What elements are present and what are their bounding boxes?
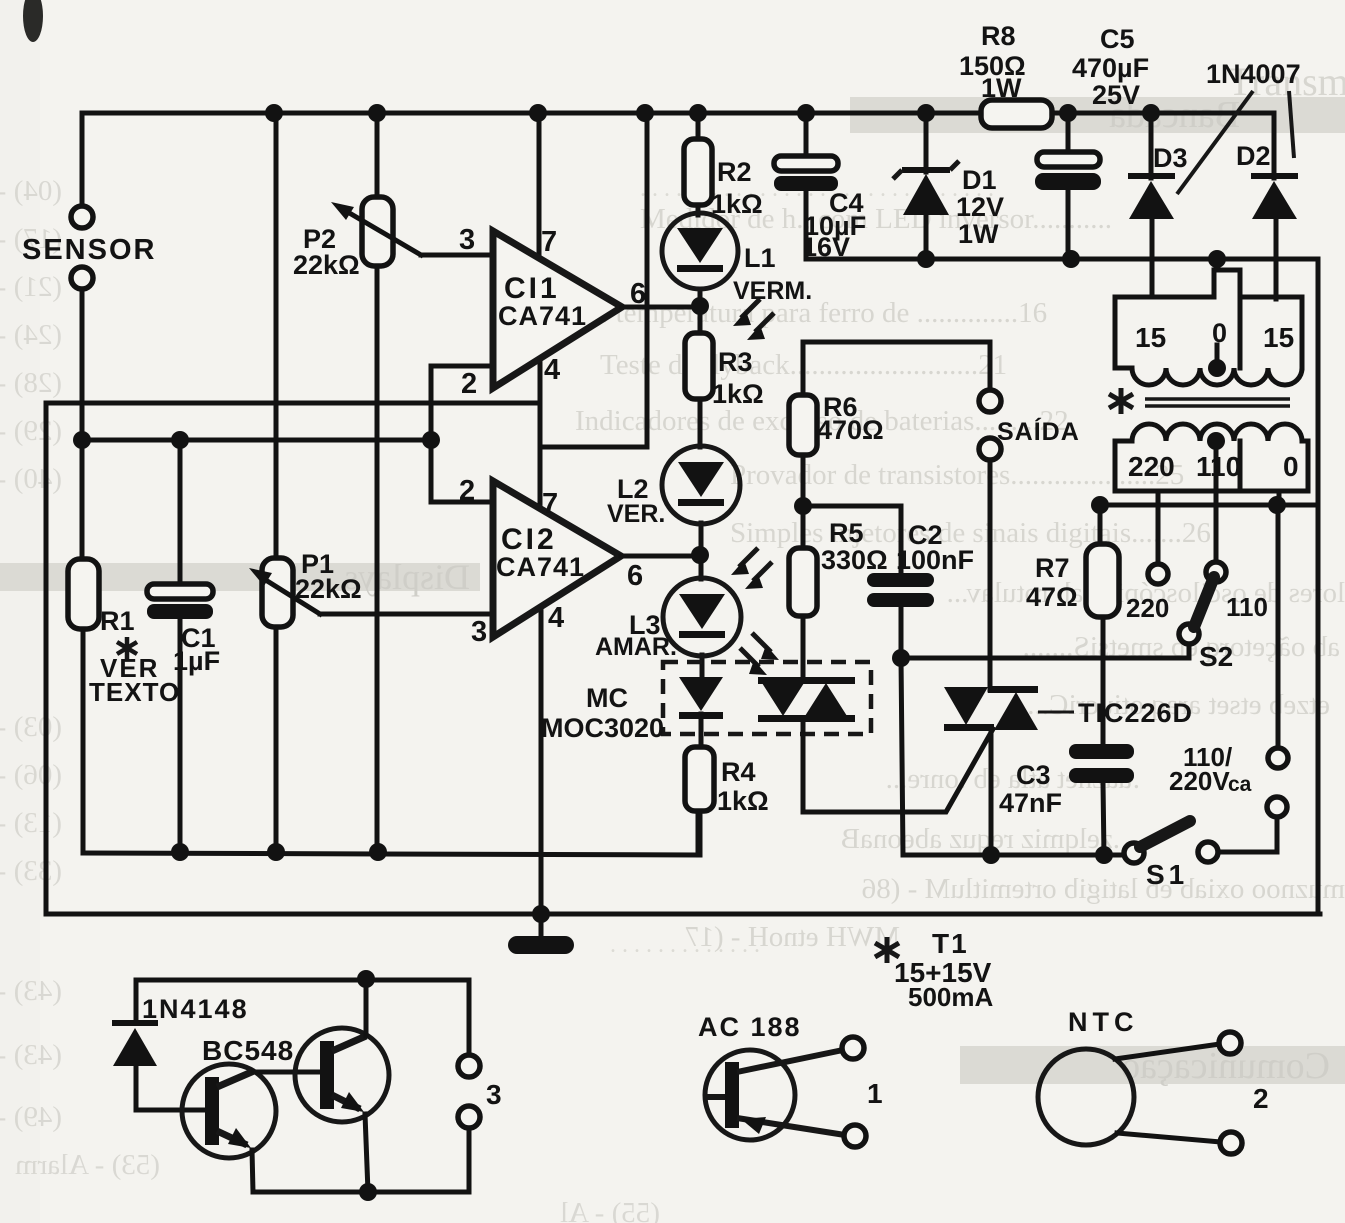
- wire: left rail horizontal y403: [46, 401, 540, 406]
- svg-text:1W: 1W: [958, 219, 999, 249]
- wire: CI2 pin3 lead: [320, 612, 493, 617]
- svg-text:(28) - E: (28) - E: [0, 367, 62, 399]
- wire: Q1 collector to Q2 base: [253, 1070, 320, 1075]
- svg-text:3: 3: [471, 616, 487, 648]
- ground symbol: [539, 914, 544, 940]
- terminal NTC bottom: [1220, 1132, 1242, 1154]
- wire: secondary 0 tap: [1215, 259, 1220, 270]
- arrowhead P2 wiper: [331, 202, 354, 220]
- transistor Q2 BC548: [295, 1028, 389, 1122]
- wire: left border rail: [44, 403, 49, 914]
- terminal 220: [1148, 564, 1168, 584]
- svg-text:R7: R7: [1035, 553, 1070, 583]
- terminal 3 bottom: [458, 1106, 480, 1128]
- wire: R5/opto column: [801, 342, 806, 397]
- wire: C2 node down to mains row: [901, 658, 1124, 855]
- wire: R7 to C3: [1101, 617, 1106, 747]
- svg-text:L1: L1: [744, 243, 776, 273]
- wire: C2 bottom lead: [899, 607, 904, 658]
- wire: P2 column from +V: [375, 113, 380, 197]
- wire: row A y505: [1100, 503, 1318, 508]
- scan smudge top-left: [23, 0, 43, 42]
- wire: primary 220 tap: [1156, 491, 1161, 563]
- svg-text:(21) - A: (21) - A: [0, 271, 62, 303]
- transformer T1 primary box: [1115, 441, 1308, 491]
- svg-text:1kΩ: 1kΩ: [712, 379, 764, 409]
- svg-text:CA741: CA741: [498, 301, 587, 331]
- svg-text:R5: R5: [829, 518, 864, 548]
- svg-text:(04) - T: (04) - T: [0, 175, 62, 207]
- wire: CI1 pin7 to +V: [537, 113, 542, 258]
- potentiometer P1 22k: [262, 558, 293, 627]
- wire: CI1 pin4 / CI2 pin7 column: [538, 358, 543, 508]
- svg-text:(53) - Alarm: (53) - Alarm: [15, 1149, 160, 1181]
- wire: sensor/R1 column: [80, 289, 85, 559]
- svg-text:D1: D1: [962, 165, 997, 195]
- svg-text:(13) - Ala: (13) - Ala: [0, 807, 62, 839]
- wire: 0 tap down to Vca terminal: [1276, 505, 1281, 748]
- wire: CI2 pin4 column to ground: [539, 607, 544, 914]
- zener D1 12V 1W: [924, 113, 929, 172]
- capacitor C3 47nF: [1069, 744, 1134, 759]
- sub-circuit top wire: [136, 978, 469, 983]
- svg-text:(24) - T: (24) - T: [0, 319, 62, 351]
- capacitor C2 100nF: [867, 573, 934, 587]
- optocoupler MC MOC3020 dashed box: [663, 662, 871, 734]
- svg-text:220: 220: [1128, 451, 1175, 482]
- svg-text:VERM.: VERM.: [733, 277, 812, 305]
- resistor R6 470: [789, 395, 817, 455]
- svg-text:AC 188: AC 188: [698, 1012, 802, 1042]
- wire: CI2 pin6 output: [621, 554, 701, 559]
- wire: Q2 emitter down: [365, 1114, 368, 1192]
- svg-text:MC: MC: [586, 683, 628, 713]
- svg-text:100nF: 100nF: [896, 545, 974, 575]
- svg-text:(49) - Ala: (49) - Ala: [0, 1101, 62, 1133]
- wire: C2 top lead: [899, 506, 904, 576]
- wire: S1 right to Vca: [1219, 817, 1277, 852]
- svg-text:1µF: 1µF: [173, 646, 220, 676]
- terminal NTC top: [1219, 1032, 1241, 1054]
- bleed-through band mid left: [0, 563, 480, 591]
- wire: P1 top column from +V: [274, 113, 279, 558]
- light arrows L2: [739, 548, 772, 581]
- svg-text:(40) - T: (40) - T: [0, 463, 62, 495]
- terminal SAIDA top: [979, 390, 1001, 412]
- svg-text:110: 110: [1226, 592, 1268, 622]
- arrowhead P1 wiper: [249, 568, 272, 586]
- svg-text:1kΩ: 1kΩ: [711, 189, 763, 219]
- bleed-through band top right: [850, 97, 1345, 133]
- wire: C1 bottom lead: [178, 618, 183, 852]
- transformer T1 secondary box: [1115, 270, 1302, 368]
- secondary winding bumps: [1132, 368, 1302, 385]
- capacitor C4 10uF 16V: [774, 156, 838, 171]
- wire: primary 110 tap: [1214, 441, 1219, 561]
- svg-text:470Ω: 470Ω: [817, 415, 884, 445]
- resistor R3 1k: [685, 333, 713, 399]
- svg-text:1N4007: 1N4007: [1206, 59, 1301, 89]
- wire: top +V rail: [82, 111, 1274, 116]
- wire: P2 wiper slant: [346, 211, 421, 255]
- svg-text:1N4148: 1N4148: [142, 994, 249, 1024]
- svg-text:R2: R2: [717, 157, 752, 187]
- bleed mirrored left numbers: [0, 175, 660, 1223]
- wire: ground row y852: [83, 812, 698, 855]
- wire: inverting input row y440: [82, 438, 431, 443]
- svg-text:7: 7: [541, 226, 557, 258]
- terminal Vca lower: [1267, 797, 1287, 817]
- terminal AC188 bottom: [844, 1125, 866, 1147]
- wire: gate row to triac: [803, 729, 993, 812]
- switch S1: [1124, 843, 1144, 863]
- svg-text:S2: S2: [1199, 641, 1233, 672]
- svg-text:muznoo oxiab eb latigib ortemi: muznoo oxiab eb latigib ortemitluM - (86: [862, 873, 1345, 905]
- svg-text:220: 220: [1126, 593, 1169, 623]
- diode D2: [1272, 113, 1277, 178]
- wire: CI1 pin3 lead: [421, 253, 493, 258]
- wire: R6 top row to SAIDA: [803, 342, 990, 397]
- LED L3 AMAR: [663, 578, 741, 656]
- svg-text:110: 110: [1196, 451, 1241, 482]
- wire: C4 bottom lead: [804, 190, 809, 259]
- op-amp CI1 CA741: [493, 231, 622, 388]
- terminal SENSOR top: [71, 206, 93, 228]
- bleed-through band bottom right: [960, 1046, 1345, 1084]
- svg-text:(03) - Re: (03) - Re: [0, 711, 62, 743]
- light arrows L1: [741, 299, 774, 332]
- svg-text:BC548: BC548: [202, 1035, 294, 1066]
- svg-text:AMAR.: AMAR.: [595, 633, 677, 661]
- svg-text:500mA: 500mA: [908, 982, 993, 1012]
- svg-text:(43) - Blo: (43) - Blo: [0, 975, 62, 1007]
- svg-text:SENSOR: SENSOR: [22, 234, 156, 266]
- wire: C4 top lead: [804, 113, 809, 157]
- terminal SENSOR bottom: [71, 267, 93, 289]
- resistor R2 1k: [684, 139, 712, 205]
- resistor R4 1k: [685, 747, 714, 811]
- svg-text:1kΩ: 1kΩ: [717, 786, 769, 816]
- svg-text:R1: R1: [100, 606, 135, 636]
- resistor R8 150 1W: [981, 100, 1052, 128]
- wire: R5 to C2 row: [803, 504, 901, 509]
- terminal AC188 top: [842, 1037, 864, 1059]
- svg-text:22kΩ: 22kΩ: [293, 250, 360, 280]
- terminal Vca upper: [1268, 748, 1288, 768]
- resistor R5 330: [789, 548, 817, 616]
- svg-text:470µF: 470µF: [1072, 53, 1149, 83]
- wire: P2 bottom lead to ground row: [375, 266, 380, 852]
- svg-text:7: 7: [542, 488, 558, 520]
- capacitor C5 470uF 25V: [1066, 113, 1071, 154]
- wire: LED chain column: [696, 113, 701, 141]
- svg-text:C3: C3: [1016, 760, 1051, 790]
- svg-text:(55) - Al: (55) - Al: [560, 1197, 660, 1223]
- asterisk transformer: [1109, 388, 1133, 414]
- svg-text:0: 0: [1283, 451, 1299, 482]
- LED L1 VERM: [662, 213, 738, 289]
- svg-text:C5: C5: [1100, 24, 1135, 54]
- svg-text:4: 4: [544, 354, 560, 386]
- wire: row B y259: [806, 257, 1318, 262]
- svg-text:MOC3020: MOC3020: [541, 713, 664, 743]
- LED L2 VER: [662, 446, 740, 524]
- svg-text:(43) - Fe: (43) - Fe: [0, 1039, 62, 1071]
- resistor R7 47: [1098, 505, 1103, 546]
- svg-text:D3: D3: [1153, 143, 1188, 173]
- MOC LED: [679, 677, 723, 711]
- svg-text:R3: R3: [718, 347, 753, 377]
- wire: base Q1: [136, 1108, 207, 1113]
- svg-text:. . . . . . . . . . . . .: . . . . . . . . . . . . .: [610, 932, 760, 958]
- svg-text:ca: ca: [1228, 773, 1252, 796]
- wire: CI1 pin2 stub: [431, 366, 493, 502]
- triac TIC226D: [988, 686, 1038, 693]
- wire: P1 bottom lead: [274, 627, 279, 852]
- svg-text:.zelqmiz requz abeonaB: .zelqmiz requz abeonaB: [841, 823, 1120, 855]
- svg-text:3: 3: [459, 224, 475, 256]
- transistor Q1 BC548: [182, 1064, 276, 1158]
- terminal SAIDA bottom: [979, 438, 1001, 460]
- svg-text:6: 6: [627, 560, 643, 592]
- svg-text:S1: S1: [1146, 859, 1188, 890]
- svg-text:47nF: 47nF: [999, 788, 1062, 818]
- svg-text:VER.: VER.: [607, 500, 665, 528]
- svg-text:2: 2: [461, 368, 477, 400]
- wire: C3 bottom lead: [1103, 783, 1104, 855]
- resistor R1: [68, 559, 99, 629]
- svg-text:12V: 12V: [956, 192, 1004, 222]
- svg-text:R8: R8: [981, 21, 1016, 51]
- diode 1N4148: [134, 980, 139, 1023]
- terminal 3 top: [467, 980, 472, 1055]
- wire: C1 top lead: [178, 440, 183, 584]
- svg-text:NTC: NTC: [1068, 1007, 1139, 1037]
- svg-text:15: 15: [1135, 322, 1166, 353]
- label T1 15+15V 500mA: [875, 937, 899, 963]
- wire: P1 wiper slant: [264, 579, 320, 614]
- svg-text:2: 2: [1253, 1083, 1269, 1114]
- wire: CI1 pin6 output: [622, 305, 700, 310]
- potentiometer P2 22k: [362, 197, 393, 266]
- svg-text:220V: 220V: [1169, 766, 1230, 796]
- svg-text:1W: 1W: [981, 73, 1022, 103]
- wire: right border rail: [1316, 259, 1321, 914]
- svg-text:4: 4: [548, 602, 564, 634]
- svg-text:(29) - T: (29) - T: [0, 415, 62, 447]
- svg-text:25V: 25V: [1092, 80, 1140, 110]
- MOC output triac: [758, 677, 855, 684]
- switch S2: [1179, 624, 1199, 644]
- svg-text:2: 2: [459, 475, 475, 507]
- svg-text:TIC226D: TIC226D: [1078, 698, 1193, 728]
- svg-text:SAÍDA: SAÍDA: [997, 417, 1080, 446]
- wire: Q2 collector up: [364, 979, 369, 1036]
- svg-text:D2: D2: [1236, 141, 1271, 171]
- svg-text:3: 3: [486, 1079, 502, 1110]
- asterisk VER TEXTO: [117, 637, 137, 659]
- svg-text:15: 15: [1263, 322, 1294, 353]
- svg-text:0: 0: [1212, 318, 1227, 348]
- svg-text:CA741: CA741: [496, 552, 585, 582]
- transformer core: [1145, 397, 1290, 401]
- wire: SAIDA to triac MT2: [988, 460, 993, 690]
- diode D3: [1149, 113, 1154, 178]
- wire: R1 bottom lead: [81, 629, 86, 853]
- wire: triac MT1 down: [989, 731, 994, 855]
- svg-text:R4: R4: [721, 757, 756, 787]
- svg-text:(06) - Al: (06) - Al: [0, 759, 62, 791]
- capacitor C1 1uF: [147, 584, 213, 599]
- sub-circuit bottom wire: [253, 1190, 469, 1195]
- wire: Q1 emitter down: [252, 1150, 253, 1192]
- svg-text:T1: T1: [932, 928, 969, 959]
- svg-text:330Ω: 330Ω: [821, 545, 888, 575]
- wire: link pin4 node to x647 riser: [540, 445, 647, 450]
- svg-text:TEXTO: TEXTO: [89, 677, 180, 707]
- svg-text:1: 1: [867, 1078, 883, 1109]
- wire: bottom border row y914: [46, 912, 1320, 917]
- terminal 110: [1206, 562, 1226, 582]
- svg-text:(33) - Sis: (33) - Sis: [0, 855, 62, 887]
- wire: snubber row y658 to S2: [901, 645, 1189, 658]
- svg-text:47Ω: 47Ω: [1026, 582, 1078, 612]
- op-amp CI2 CA741: [493, 481, 621, 637]
- light arrows L3: [740, 633, 771, 667]
- wire: x647 riser to +V: [645, 113, 650, 447]
- wire: SENSOR top lead: [80, 113, 85, 206]
- svg-text:22kΩ: 22kΩ: [295, 574, 362, 604]
- primary winding bumps: [1132, 424, 1302, 441]
- svg-text:Displays: Displays: [344, 557, 470, 597]
- wire: primary 0 tap: [1277, 491, 1282, 505]
- leader TIC226D: [1038, 711, 1074, 714]
